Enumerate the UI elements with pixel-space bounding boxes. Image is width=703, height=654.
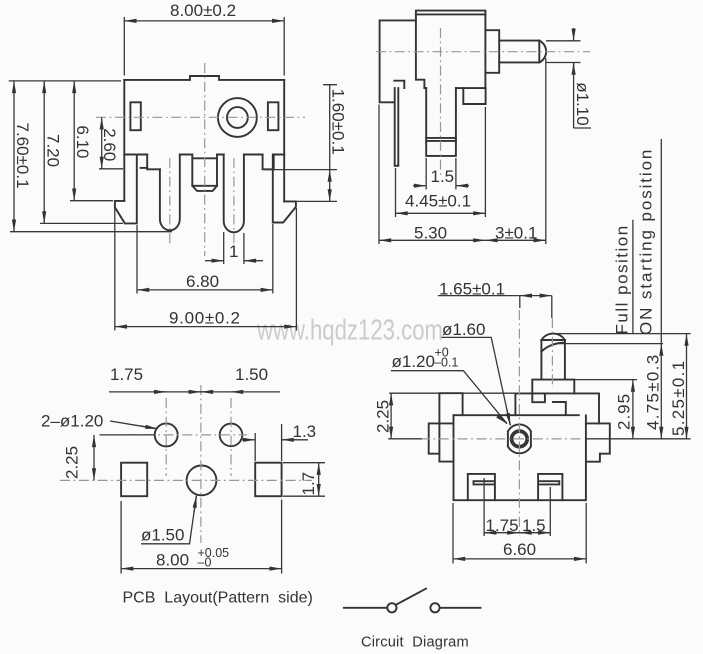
svg-text:–0: –0 bbox=[198, 556, 212, 570]
center hole inner circle bbox=[227, 107, 248, 128]
right ear bbox=[586, 423, 610, 453]
left pin bbox=[160, 155, 180, 231]
pad left square bbox=[121, 463, 147, 497]
dim 8.00 +0.05/-0 bbox=[121, 500, 282, 574]
svg-text:Full position: Full position bbox=[613, 224, 632, 334]
svg-text:1: 1 bbox=[229, 242, 238, 261]
dim 7.20 bbox=[40, 222, 123, 224]
svg-text:6.80: 6.80 bbox=[186, 272, 219, 291]
dim 2.60 bbox=[99, 168, 123, 170]
dim 4.45±0.1 bbox=[396, 107, 486, 217]
dim 6.80 bbox=[137, 224, 273, 294]
hole right ø1.20 bbox=[220, 424, 243, 447]
top plate double line bbox=[416, 11, 486, 15]
centerline extension right bbox=[586, 438, 691, 440]
hole inner circle bbox=[513, 432, 527, 446]
pin centerline bbox=[551, 318, 553, 388]
center post with chamfers bbox=[192, 155, 217, 191]
body top edge bbox=[454, 414, 579, 416]
leg top step bbox=[394, 81, 404, 88]
full position line bbox=[556, 333, 691, 335]
svg-text:ON starting position: ON starting position bbox=[637, 148, 656, 335]
pin dome rim bbox=[541, 339, 565, 341]
svg-text:ø1.50: ø1.50 bbox=[141, 526, 184, 545]
centerline solid extension left bbox=[388, 438, 422, 440]
dim 9.00±0.2 bbox=[115, 208, 297, 331]
dim 6.60 bbox=[453, 503, 586, 564]
svg-text:www.hqdz123.com: www.hqdz123.com bbox=[256, 315, 443, 347]
svg-text:2.25: 2.25 bbox=[374, 400, 393, 433]
vertical centerline bbox=[204, 63, 206, 256]
right bottom tab bbox=[263, 155, 274, 170]
dim ø1.10 bbox=[546, 41, 581, 63]
body right edge bbox=[484, 14, 486, 88]
right below-ear tab bbox=[586, 454, 600, 462]
svg-text:7.20: 7.20 bbox=[44, 134, 63, 167]
left ear bbox=[429, 423, 454, 453]
plunger pin bbox=[499, 41, 539, 63]
svg-text:2.60: 2.60 bbox=[100, 128, 119, 161]
bracket/body boundary bbox=[416, 14, 425, 88]
svg-text:1.75: 1.75 bbox=[110, 365, 143, 384]
dim 1.75 / 1.50 top bbox=[109, 391, 280, 393]
svg-text:1.50: 1.50 bbox=[235, 365, 268, 384]
centerline through big hole row bbox=[60, 479, 312, 481]
hole outer barrel bbox=[508, 424, 531, 453]
svg-text:6.60: 6.60 bbox=[503, 540, 536, 559]
left wire bbox=[344, 607, 387, 609]
flange bbox=[532, 380, 574, 394]
hole middle circle bbox=[511, 430, 528, 447]
svg-text:1.60±0.1: 1.60±0.1 bbox=[329, 89, 348, 155]
svg-text:1.5: 1.5 bbox=[431, 167, 455, 186]
side view horizontal centerline bbox=[376, 51, 590, 53]
left mounting foot bbox=[115, 155, 137, 224]
pin dome bbox=[541, 334, 565, 340]
svg-text:–0.1: –0.1 bbox=[434, 356, 458, 370]
dim 5.25±0.1 bbox=[686, 334, 688, 439]
thin metal leg bbox=[395, 88, 399, 166]
inner rectangle right bbox=[268, 102, 279, 130]
left bracket block bbox=[380, 20, 416, 102]
vertical centerline right hole bbox=[230, 398, 232, 476]
dim 5.30 bbox=[379, 58, 546, 244]
terminal bend double line bbox=[426, 138, 456, 141]
right wire bbox=[440, 607, 480, 609]
front view body outline bbox=[124, 76, 284, 80]
pin dome tip bbox=[539, 41, 546, 63]
dim 2.95 bbox=[632, 380, 634, 439]
dim 7.60±0.1 bbox=[9, 80, 121, 82]
svg-text:9.00±0.2: 9.00±0.2 bbox=[169, 309, 241, 328]
dim 1.75 / 1.5 bottom tabs bbox=[484, 478, 550, 536]
vertical centerline big hole bbox=[200, 385, 202, 543]
small step mark left bbox=[141, 167, 148, 169]
back view vertical centerline bbox=[518, 310, 520, 536]
svg-text:Circuit Diagram: Circuit Diagram bbox=[361, 635, 469, 651]
dim 3±0.1 bbox=[485, 239, 545, 241]
svg-text:1.75: 1.75 bbox=[486, 516, 519, 535]
dim 1.60±0.1 bbox=[264, 169, 337, 171]
ON starting position line bbox=[559, 343, 663, 345]
switch lever bbox=[397, 589, 427, 605]
left contact circle bbox=[387, 603, 396, 612]
svg-text:2–ø1.20: 2–ø1.20 bbox=[41, 412, 103, 431]
centerline through small holes bbox=[107, 434, 247, 436]
dim 4.75±0.3 bbox=[660, 344, 662, 439]
bottom right foot bbox=[463, 88, 485, 104]
center terminal bbox=[426, 88, 456, 156]
right mounting foot bbox=[273, 155, 296, 223]
body bottom edge bbox=[424, 87, 485, 89]
tab slot right bbox=[540, 481, 559, 484]
dim 2.25 (back view) bbox=[389, 392, 515, 394]
flange top extension right bbox=[574, 379, 637, 381]
svg-text:8.00±0.2: 8.00±0.2 bbox=[170, 1, 236, 20]
hole left ø1.20 bbox=[155, 423, 178, 446]
svg-text:2.95: 2.95 bbox=[615, 393, 634, 430]
right pin centerline bbox=[233, 158, 235, 250]
pin shoulder curve bbox=[541, 343, 565, 352]
svg-text:1.3: 1.3 bbox=[293, 422, 317, 441]
front body right edge bbox=[283, 80, 285, 201]
svg-text:6.10: 6.10 bbox=[73, 125, 92, 158]
dim 1.5 (terminal) bbox=[426, 158, 456, 190]
left raised block bbox=[439, 393, 462, 461]
svg-text:1.7: 1.7 bbox=[299, 472, 318, 496]
svg-text:ø1.10: ø1.10 bbox=[573, 82, 592, 125]
front body left edge bbox=[123, 80, 125, 201]
svg-text:1.5: 1.5 bbox=[522, 516, 546, 535]
dim 6.10 bbox=[70, 200, 113, 202]
svg-text:ø1.60: ø1.60 bbox=[442, 320, 485, 339]
dim 1.3 bbox=[255, 424, 281, 461]
body outline bbox=[454, 415, 586, 500]
svg-text:5.30: 5.30 bbox=[414, 224, 447, 243]
plunger base bbox=[485, 30, 499, 73]
tab slot left bbox=[474, 481, 495, 484]
right contact circle bbox=[430, 603, 439, 612]
left below-ear tab bbox=[439, 461, 453, 463]
left bottom step notch bbox=[147, 155, 160, 170]
dim 2.25 left bbox=[100, 434, 156, 436]
svg-text:4.75±0.3: 4.75±0.3 bbox=[644, 354, 663, 430]
dim 1.7 bbox=[283, 463, 325, 497]
center hole outer circle bbox=[218, 98, 257, 137]
svg-text:5.25±0.1: 5.25±0.1 bbox=[669, 360, 688, 436]
bottom tab left bbox=[468, 474, 495, 500]
svg-text:PCB Layout(Pattern side): PCB Layout(Pattern side) bbox=[123, 590, 313, 607]
top cap bbox=[515, 393, 599, 423]
svg-text:ø1.20: ø1.20 bbox=[392, 352, 435, 371]
side view vertical centerline bbox=[440, 28, 442, 176]
front body bottom edge segments bbox=[124, 154, 284, 156]
hole center ø1.50 bbox=[187, 466, 217, 496]
svg-text:4.45±0.1: 4.45±0.1 bbox=[405, 192, 471, 211]
vertical centerline left hole bbox=[165, 398, 167, 476]
svg-text:7.60±0.1: 7.60±0.1 bbox=[13, 123, 32, 189]
plunger pin bbox=[541, 340, 565, 380]
horizontal centerline bbox=[96, 116, 305, 118]
left pin centerline bbox=[169, 158, 171, 246]
inner rectangle left bbox=[130, 102, 140, 130]
pad right square bbox=[255, 463, 281, 497]
bottom tab right bbox=[538, 474, 562, 500]
cap inner step right bbox=[553, 402, 566, 414]
back view horizontal centerline bbox=[420, 438, 584, 440]
svg-text:2.25: 2.25 bbox=[63, 446, 82, 479]
svg-text:3±0.1: 3±0.1 bbox=[495, 224, 537, 243]
svg-text:8.00: 8.00 bbox=[156, 551, 189, 570]
dim 1 (pin width) bbox=[224, 232, 244, 264]
right pin bbox=[224, 155, 244, 233]
cap inner step left bbox=[532, 393, 545, 402]
